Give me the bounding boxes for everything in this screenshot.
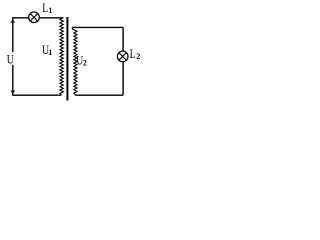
wire: right vertical lower (from lamp L2) [122, 62, 124, 95]
transformer secondary winding U2 [72, 27, 77, 95]
arrowhead down (voltage U, bottom) [10, 90, 15, 94]
lamp L1 [29, 12, 40, 23]
transformer primary winding U1 [60, 18, 63, 95]
wire: left vertical lower segment (below U label) [12, 65, 14, 95]
wire: right vertical upper (to lamp L2) [122, 27, 124, 51]
wire: bottom-left horizontal [12, 94, 61, 96]
wire: bottom-right horizontal [75, 94, 123, 96]
transformer core [66, 17, 68, 101]
arrowhead up (voltage U, top) [10, 19, 15, 23]
wire: left vertical upper segment (above U label) [12, 18, 14, 52]
svg-text:L: L [130, 48, 136, 61]
wire: top-right horizontal from secondary to right loop [72, 26, 123, 28]
lamp L2 [117, 51, 128, 62]
svg-text:2: 2 [83, 59, 87, 68]
wire: top-left horizontal from source corner to primary coil [12, 17, 63, 19]
svg-text:1: 1 [48, 6, 52, 15]
svg-text:1: 1 [48, 48, 52, 57]
svg-text:2: 2 [136, 52, 140, 61]
svg-text:U: U [7, 53, 14, 66]
